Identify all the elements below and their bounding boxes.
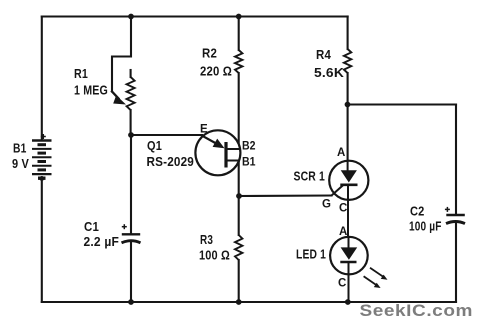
- svg-text:R2: R2: [202, 46, 217, 61]
- SCR1 triangle: [341, 170, 357, 182]
- svg-text:R1: R1: [74, 66, 88, 81]
- svg-text:100 Ω: 100 Ω: [199, 248, 230, 263]
- svg-text:5.6K: 5.6K: [314, 65, 344, 80]
- svg-text:9 V: 9 V: [12, 156, 29, 171]
- junction node bottom LED: [345, 299, 351, 305]
- wire right vertical lower (C2 bottom lead): [455, 223, 457, 302]
- junction node gate: [236, 193, 242, 199]
- svg-text:R3: R3: [200, 232, 213, 247]
- wire R1 branch from top: [112, 17, 131, 92]
- wire horizontal to C2 branch: [348, 103, 457, 105]
- wire R1 wiper diagonal: [112, 92, 119, 99]
- svg-text:2.2 µF: 2.2 µF: [84, 234, 120, 249]
- transistor Q1 B2 lead: [226, 148, 240, 150]
- wire R2 branch top lead: [238, 17, 240, 51]
- wire left vertical upper: [41, 17, 43, 140]
- LED1 triangle: [341, 247, 358, 259]
- svg-text:B2: B2: [242, 141, 256, 153]
- transistor Q1 B1 lead: [226, 160, 240, 162]
- capacitor C1 plus sign: [122, 224, 127, 229]
- wire C1 bottom lead: [130, 243, 132, 302]
- svg-text:A: A: [339, 226, 347, 238]
- SCR1 cathode bar: [340, 184, 357, 187]
- capacitor C2 plus sign: [445, 207, 450, 212]
- svg-text:R4: R4: [316, 47, 331, 62]
- LED1 anode lead inside: [348, 238, 350, 250]
- wire R2 bottom to R3 top: [238, 73, 240, 235]
- resistor R3 zigzag: [235, 235, 242, 260]
- wire emitter horizontal: [131, 134, 202, 136]
- battery B1: [32, 141, 52, 179]
- svg-text:B1: B1: [242, 157, 256, 169]
- junction node bottom R3: [236, 299, 242, 305]
- capacitor C1: [122, 234, 141, 243]
- resistor R2 zigzag: [235, 50, 242, 73]
- svg-text:LED 1: LED 1: [296, 247, 326, 262]
- wire node E down to C1: [130, 135, 132, 234]
- transistor Q1 emitter arrow: [201, 135, 219, 145]
- svg-text:C: C: [339, 203, 347, 215]
- LED1 cathode lead: [348, 262, 350, 302]
- svg-text:220 Ω: 220 Ω: [200, 64, 232, 79]
- wire R4 bottom to SCR anode: [347, 73, 349, 161]
- wire R3 bottom lead: [238, 260, 240, 302]
- resistor R1 wiper arrowhead: [113, 95, 126, 104]
- junction node R4/C2: [345, 102, 351, 108]
- svg-text:C1: C1: [84, 219, 99, 234]
- junction node top R1: [128, 14, 134, 20]
- LED1 cathode bar: [340, 261, 356, 264]
- capacitor C2: [446, 215, 465, 224]
- wire bottom horizontal: [42, 301, 456, 303]
- svg-text:100 µF: 100 µF: [409, 219, 442, 234]
- junction node E: [128, 132, 134, 138]
- LED1 light arrow upper: [370, 268, 384, 278]
- svg-text:SCR 1: SCR 1: [294, 169, 326, 184]
- transistor Q1 circle: [195, 130, 240, 175]
- wire R4 branch top lead: [347, 17, 349, 50]
- svg-text:RS-2029: RS-2029: [147, 154, 195, 169]
- svg-text:B1: B1: [13, 141, 27, 156]
- wire left vertical lower: [41, 178, 43, 303]
- svg-text:G: G: [322, 199, 331, 211]
- svg-text:1 MEG: 1 MEG: [74, 83, 108, 98]
- junction node bottom C1: [128, 299, 134, 305]
- SCR1 gate diagonal: [332, 185, 344, 195]
- wire R1 top stub: [130, 70, 132, 77]
- battery plus sign: [41, 134, 46, 139]
- wire right vertical upper (C2 top lead): [455, 105, 457, 215]
- svg-text:Q1: Q1: [147, 138, 162, 153]
- battery bottom terminal dot: [39, 176, 44, 181]
- wire R1 bottom lead to node E: [130, 110, 132, 135]
- resistor R1 zigzag: [127, 77, 135, 110]
- svg-text:C2: C2: [410, 204, 425, 219]
- junction node top R2: [236, 14, 242, 20]
- wire top horizontal: [42, 15, 348, 17]
- svg-text:C: C: [338, 278, 346, 290]
- wire gate horizontal: [239, 194, 332, 197]
- transistor Q1 base bar: [224, 142, 227, 168]
- LED1 light arrow lower: [364, 276, 377, 285]
- resistor R4 zigzag: [344, 49, 351, 73]
- SCR1 circle: [329, 161, 368, 200]
- SCR1 cathode lead down to LED anode: [347, 185, 349, 238]
- svg-text:E: E: [200, 124, 208, 136]
- SCR1 anode lead inside: [347, 161, 349, 172]
- LED1 circle: [330, 237, 368, 275]
- svg-text:SeekIC.com: SeekIC.com: [360, 301, 474, 320]
- svg-text:A: A: [337, 147, 345, 159]
